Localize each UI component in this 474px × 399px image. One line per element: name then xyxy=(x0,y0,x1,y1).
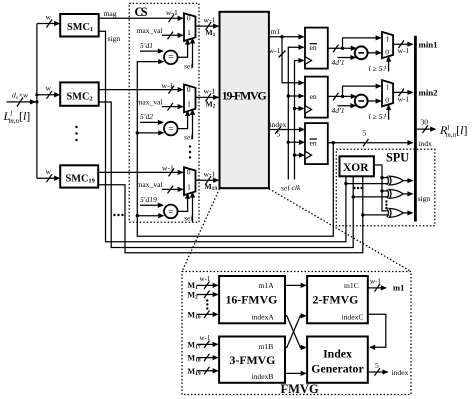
wire XOR output down the gate column xyxy=(374,165,389,211)
XOR box xyxy=(340,156,374,176)
svg-text:4d′1: 4d′1 xyxy=(332,106,345,115)
svg-text:sign: sign xyxy=(108,34,121,43)
svg-text:1: 1 xyxy=(187,100,191,109)
comparator = row2 xyxy=(164,122,178,136)
svg-text:w: w xyxy=(46,167,52,176)
svg-text:en: en xyxy=(310,138,317,147)
svg-text:19-FMVG: 19-FMVG xyxy=(222,89,267,103)
wire max_val row2 xyxy=(137,97,183,110)
register U1 (min1, en-bar) xyxy=(305,28,328,69)
2-FMVG box xyxy=(307,276,368,323)
wire m1B cross up to 2-FMVG xyxy=(285,316,306,348)
wire M17 input to 3-FMVG xyxy=(188,334,218,350)
wire m1 from 19-FMVG to register U1 xyxy=(269,27,304,39)
wire sign1 tap to gate1 xyxy=(344,182,388,185)
wire indexA cross down to Index Generator xyxy=(285,316,306,348)
mux M19 xyxy=(184,167,196,195)
wire sign1 from SMC1 down around to SPU xyxy=(99,31,346,242)
wire m1 branch down to register U2 xyxy=(269,37,304,83)
svg-text:CS: CS xyxy=(135,5,148,19)
svg-text:w-1: w-1 xyxy=(398,46,410,55)
wire indx from register U3 to bus xyxy=(328,129,432,149)
label w-1 on mag2 xyxy=(162,81,175,94)
svg-text:5: 5 xyxy=(375,361,379,370)
SMC1 box xyxy=(60,14,98,37)
svg-text:sel: sel xyxy=(184,61,192,70)
mux M2 xyxy=(184,85,196,113)
wire 4d'1 into subtractor1 xyxy=(332,58,356,67)
svg-text:5: 5 xyxy=(363,129,367,138)
label w-1 on mag19 xyxy=(162,164,174,177)
wire sel1 xyxy=(184,38,193,70)
SMC2 box xyxy=(60,82,98,105)
xor gate G3 xyxy=(387,209,413,218)
wire main input L xyxy=(7,91,36,107)
svg-text:30: 30 xyxy=(421,118,429,127)
xor gate G2 xyxy=(387,190,413,199)
wire M19 input to 3-FMVG xyxy=(188,367,218,377)
svg-text:=: = xyxy=(168,53,173,63)
wire m1 final output xyxy=(368,278,405,293)
19-FMVG box xyxy=(220,12,269,188)
svg-text:5′d19: 5′d19 xyxy=(140,195,157,204)
callout dotted line right xyxy=(269,189,411,272)
wire M2 output xyxy=(196,87,219,110)
wire 5'd2 row2 xyxy=(140,112,163,122)
wire sign19 tap to gate3 xyxy=(361,213,389,216)
svg-text:0: 0 xyxy=(187,85,191,94)
subtractor U5 xyxy=(355,95,368,108)
svg-text:1: 1 xyxy=(386,34,390,43)
svg-text:m1B: m1B xyxy=(259,342,274,351)
comparator = row19 xyxy=(164,205,178,219)
svg-text:5′d1: 5′d1 xyxy=(140,41,153,50)
CS dashed box xyxy=(129,3,199,222)
svg-text:w-1: w-1 xyxy=(269,46,281,55)
wire l>=5 select row1 xyxy=(369,57,389,73)
wire 4d'1 into subtractor2 xyxy=(332,106,356,115)
wire output R xyxy=(417,118,436,133)
SPU dashed box xyxy=(336,149,435,226)
svg-text:m1: m1 xyxy=(271,27,281,36)
wire branch to SMC2 xyxy=(35,84,59,104)
wire m1A to 2-FMVG xyxy=(285,284,306,286)
svg-text:clk: clk xyxy=(292,183,301,192)
xor gate G1 xyxy=(387,176,413,185)
dots between M2 and M16 xyxy=(206,299,208,309)
svg-text:5′d2: 5′d2 xyxy=(140,112,153,121)
register U2 (min2, en) xyxy=(305,77,328,118)
svg-text:SPU: SPU xyxy=(386,151,409,165)
svg-text:FMVG: FMVG xyxy=(281,382,319,396)
svg-text:sel: sel xyxy=(184,133,192,142)
wire M18 input to 3-FMVG xyxy=(188,354,218,364)
mux output min2 xyxy=(382,80,393,106)
wire comparator2 output to mux2 select xyxy=(178,111,188,129)
svg-text:=: = xyxy=(168,125,173,135)
svg-text:w-1: w-1 xyxy=(162,81,174,90)
svg-text:w-1: w-1 xyxy=(204,170,216,179)
svg-text:=: = xyxy=(168,207,173,217)
svg-text:w: w xyxy=(46,84,52,93)
wire min2 to bus xyxy=(393,89,413,104)
svg-text:Generator: Generator xyxy=(311,362,363,376)
wire sign2 tap to gate2 xyxy=(352,195,389,198)
svg-text:max_val: max_val xyxy=(137,97,163,106)
svg-text:index: index xyxy=(270,120,287,129)
svg-text:indexA: indexA xyxy=(252,313,275,322)
wire branch to SMC19 xyxy=(37,167,59,182)
svg-text:sel: sel xyxy=(184,214,192,223)
wire M19 output xyxy=(196,170,219,193)
wire M1 input to 16-FMVG xyxy=(188,275,218,291)
register U3 (indx, en-bar) xyxy=(305,123,328,164)
wire index from 19-FMVG to register U3 xyxy=(269,120,304,139)
svg-text:m1: m1 xyxy=(393,283,404,293)
wire M1 output xyxy=(196,15,219,38)
svg-text:Index: Index xyxy=(323,347,352,361)
ROW min2: wire register U2 output xyxy=(328,93,356,101)
subtractor U4 xyxy=(355,46,368,59)
dots ellipsis more sign wires xyxy=(113,214,123,216)
svg-text:mag: mag xyxy=(104,9,117,18)
wire indx tap to comparator19 xyxy=(136,214,164,217)
wire sel19 xyxy=(184,193,193,223)
mux M1 xyxy=(184,13,196,41)
svg-text:XOR: XOR xyxy=(343,162,369,174)
svg-text:1: 1 xyxy=(386,83,390,92)
wire indx tap to comparator2 xyxy=(136,131,164,134)
svg-text:SMC2: SMC2 xyxy=(67,91,93,102)
comparator = row1 xyxy=(164,51,178,65)
wire min1 to bus xyxy=(393,40,413,55)
mux output min1 xyxy=(382,32,393,58)
svg-text:5: 5 xyxy=(277,130,281,139)
wire comparator1 output to mux1 select xyxy=(178,40,188,58)
wire branch up to mux1 input 1 xyxy=(343,38,381,48)
svg-text:w-1: w-1 xyxy=(370,278,381,286)
dots between SMC2 and SMC19 xyxy=(75,126,77,141)
wire comparator19 output to mux19 select xyxy=(178,194,188,212)
wire mag19 from SMC19 to mux19 xyxy=(98,171,183,173)
svg-text:l ≥ 5?: l ≥ 5? xyxy=(369,64,387,73)
svg-text:max_val: max_val xyxy=(137,26,163,35)
wire subtractor2 to mux input 0 xyxy=(368,100,381,102)
wire branch up to mux2 input 1 xyxy=(343,86,381,96)
wire mag2 from SMC2 to mux2 xyxy=(99,89,183,91)
svg-text:0: 0 xyxy=(385,47,389,56)
dots ellipsis in SPU xyxy=(353,187,362,189)
wire sign2 from SMC2 down around to SPU xyxy=(99,102,354,248)
svg-text:en: en xyxy=(310,43,317,52)
svg-text:0: 0 xyxy=(187,14,191,23)
svg-text:w: w xyxy=(46,13,52,22)
bus output collector (thick) xyxy=(414,36,417,222)
wire indx feedback bus to comparators xyxy=(137,62,333,237)
wire l>=5 select row2 xyxy=(369,105,389,121)
svg-text:3-FMVG: 3-FMVG xyxy=(230,353,276,367)
wire mag1 from SMC1 to mux1 xyxy=(99,9,183,18)
wire max_val row19 xyxy=(137,180,183,193)
svg-text:4d′1: 4d′1 xyxy=(332,58,345,67)
dots between CS row2 and row19 xyxy=(189,145,191,158)
wire max_val row1 xyxy=(137,26,183,39)
16-FMVG box xyxy=(219,276,285,323)
svg-text:w-1: w-1 xyxy=(398,94,410,103)
svg-text:index: index xyxy=(392,368,409,377)
svg-text:en: en xyxy=(310,92,317,101)
Index Generator box xyxy=(307,337,368,383)
svg-text:min1: min1 xyxy=(419,39,438,49)
svg-text:SMC1: SMC1 xyxy=(67,22,93,33)
svg-text:0: 0 xyxy=(187,168,191,177)
callout dotted line left xyxy=(182,189,220,272)
svg-text:w-1: w-1 xyxy=(200,275,211,283)
svg-text:sel: sel xyxy=(281,184,289,193)
SMC19 box xyxy=(60,165,98,187)
wire sign19 from SMC19 down around to SPU xyxy=(98,176,363,253)
svg-text:16-FMVG: 16-FMVG xyxy=(226,293,278,307)
svg-text:1: 1 xyxy=(187,28,191,37)
svg-text:m1A: m1A xyxy=(259,281,275,290)
wire input vertical bus xyxy=(36,24,38,179)
wire subtractor1 to mux input 0 xyxy=(368,52,381,54)
svg-text:indx: indx xyxy=(418,139,432,148)
wire indexB to Index Generator xyxy=(285,372,306,374)
svg-text:0: 0 xyxy=(385,96,389,105)
wire 5'd1 row1 xyxy=(140,41,163,51)
svg-text:l ≥ 5?: l ≥ 5? xyxy=(369,112,387,121)
wire clk control vertical xyxy=(292,61,305,193)
wire indexC feedback to Index Generator xyxy=(368,314,386,347)
svg-text:indexB: indexB xyxy=(252,372,274,381)
wire index output xyxy=(368,361,409,377)
svg-text:w-1: w-1 xyxy=(204,15,216,24)
svg-text:2-FMVG: 2-FMVG xyxy=(313,293,359,307)
wire M16 input to 16-FMVG xyxy=(188,310,218,320)
ROW min1: wire register U1 output xyxy=(328,45,356,53)
svg-text:min2: min2 xyxy=(419,88,439,98)
svg-text:w-1: w-1 xyxy=(166,8,178,17)
svg-text:1: 1 xyxy=(187,182,191,191)
svg-text:w-1: w-1 xyxy=(204,87,216,96)
wire sel control vertical xyxy=(281,47,304,192)
wire branch to SMC1 xyxy=(37,13,59,28)
svg-text:m1C: m1C xyxy=(344,281,359,290)
wire M2 input to 16-FMVG xyxy=(188,291,218,301)
3-FMVG box xyxy=(219,337,285,383)
svg-text:w-1: w-1 xyxy=(200,334,211,342)
svg-text:max_val: max_val xyxy=(137,180,163,189)
svg-text:indexC: indexC xyxy=(342,313,364,322)
svg-text:w-1: w-1 xyxy=(162,164,174,173)
svg-text:sign: sign xyxy=(418,194,431,203)
label w-1 on mag1 xyxy=(166,8,178,22)
wire sel2 xyxy=(184,110,193,142)
wire 5'd19 row19 xyxy=(140,195,163,205)
svg-text:ds×w: ds×w xyxy=(12,91,29,102)
FMVG detail dashed box xyxy=(182,272,411,397)
